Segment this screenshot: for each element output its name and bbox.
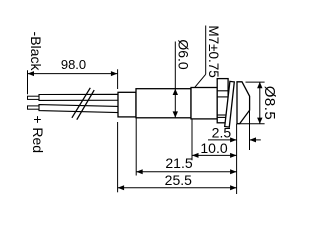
dimension 25.5 arrow left [118, 185, 125, 190]
svg-text:98.0: 98.0 [61, 57, 86, 72]
nut facet line 3 [217, 114, 228, 116]
extension line bezel seat (shared by 2.5 / 10.0 / 21.5 / 25.5) [236, 124, 238, 194]
svg-text:M7±0.75: M7±0.75 [206, 25, 221, 77]
wire W1 black lead insulated [39, 94, 118, 100]
break mark slash 1 [72, 88, 90, 118]
nut facet line 2 [217, 96, 228, 98]
dimension 2.5 line right segment [250, 139, 261, 141]
dimension 10.0 arrow left [192, 153, 199, 158]
washer (tilted) [225, 81, 235, 127]
dimension 98.0 arrow right [111, 71, 118, 76]
dimension 21.5 extension left [135, 118, 137, 176]
dimension Ø8.5 extension top [246, 81, 265, 83]
svg-text:10.0: 10.0 [200, 140, 227, 156]
dimension 25.5 line [118, 187, 237, 189]
svg-text:21.5: 21.5 [165, 155, 192, 171]
dimension 10.0 arrow right [230, 153, 237, 158]
dimension 2.5 line left segment [208, 139, 237, 141]
svg-text:+ Red: + Red [30, 115, 46, 153]
svg-text:Ø6.0: Ø6.0 [176, 39, 192, 70]
dimension 2.5 arrow right-pointing [230, 137, 237, 142]
dimension 98.0 extension line right upper segment [117, 69, 119, 89]
dimension 21.5 arrow right [230, 169, 237, 174]
dimension Ø8.5 line [259, 82, 261, 124]
svg-text:Ø8.5: Ø8.5 [261, 86, 278, 121]
wire W2 red lead insulated [39, 105, 118, 113]
dimension 10.0 extension left [191, 119, 193, 160]
hex nut [217, 79, 228, 123]
dimension 2.5 arrow left-pointing [250, 137, 257, 142]
svg-text:2.5: 2.5 [212, 124, 232, 140]
bezel head with lens [237, 82, 250, 124]
dimension 10.0 line [192, 154, 237, 156]
dimension Ø6.0 line [174, 42, 176, 118]
extension line lens front (2.5 right) [249, 111, 251, 151]
rear cap of lamp body [118, 92, 136, 117]
dimension 98.0 line [28, 73, 118, 75]
dimension 98.0 arrow left [28, 71, 35, 76]
dimension Ø8.5 extension bottom [240, 123, 265, 125]
svg-text:25.5: 25.5 [165, 172, 192, 188]
dimension Ø6.0 arrow up [173, 89, 178, 95]
threaded bushing M7 [191, 88, 217, 119]
wire W2 bare end [28, 106, 40, 109]
thread callout M7±0.75 leader vertical [205, 26, 207, 75]
nut facet line 1 [217, 90, 228, 92]
dimension Ø8.5 arrow up [257, 82, 262, 88]
dimension 98.0 extension line left [27, 70, 29, 94]
dimension 21.5 arrow left [136, 169, 143, 174]
nut facet line 4 [217, 116, 228, 118]
svg-text:-Black: -Black [28, 32, 44, 72]
dimension 21.5 line [136, 171, 236, 173]
break mark slash 2 [77, 90, 94, 120]
dimension Ø6.0 arrow down [173, 111, 178, 117]
main body (Ø6.0) [136, 89, 191, 118]
thread callout M7±0.75 leader diagonal [195, 74, 206, 87]
wire W1 bare end [28, 96, 40, 99]
extension line right lower segment (to 25.5) [117, 122, 119, 192]
dimension Ø8.5 arrow down [257, 118, 262, 124]
dimension 25.5 arrow right [230, 185, 237, 190]
